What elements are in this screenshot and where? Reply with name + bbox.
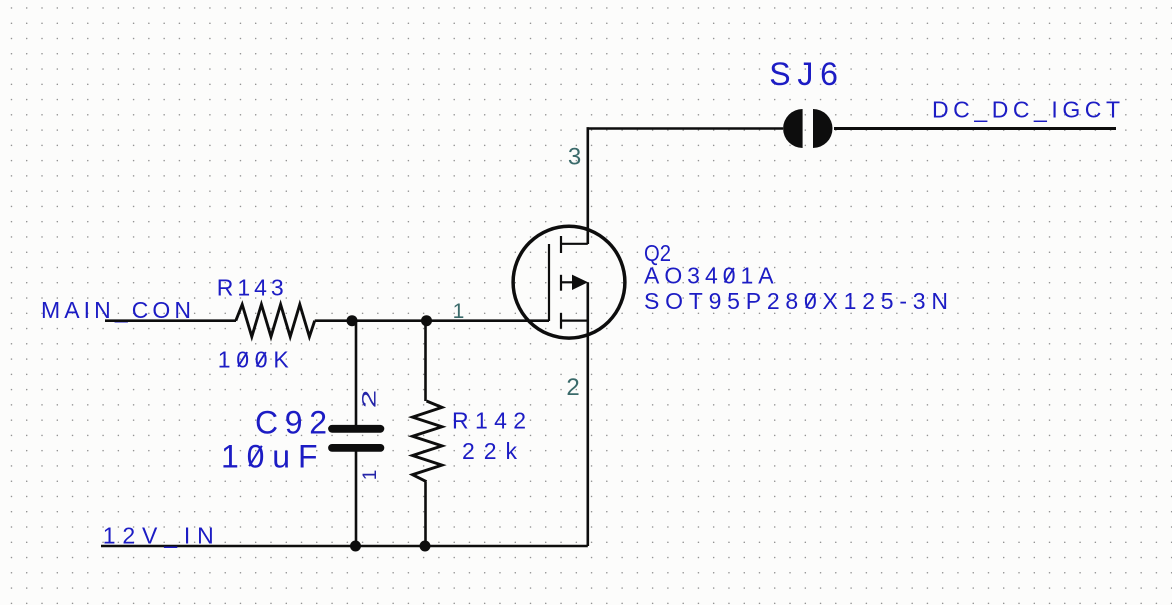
wire C92 bottom [355,451,358,547]
Q2 channel segment bottom [560,313,562,329]
wire R142 bottom [424,482,427,546]
Q2 drain lead [561,243,588,245]
junction node C92 at rail [350,541,361,552]
solder jumper SJ6 right pad [813,109,833,148]
Q2 bulk arrow [572,275,588,290]
svg-text:SOT95P280X125-3N: SOT95P280X125-3N [644,288,948,314]
transistor Q2 body circle [513,226,625,338]
svg-text:R142: R142 [452,408,526,434]
svg-text:1: 1 [360,470,381,481]
pin 3 wire (drain up) [586,127,589,244]
svg-text:100K: 100K [218,347,290,373]
slashed zero marks of 100K [238,352,247,367]
wire C92 top [355,321,358,426]
Q2 gate bar [548,244,550,321]
svg-text:SJ6: SJ6 [769,56,838,92]
svg-text:12V_IN: 12V_IN [103,523,214,549]
Q2 bulk lead [561,281,573,283]
svg-text:1: 1 [453,300,465,323]
Q2 channel segment top [560,236,562,253]
junction node at C92 [347,315,358,326]
wire top rail right [834,127,1116,130]
capacitor C92 plate bottom [332,444,380,452]
wire top rail left [587,127,784,130]
junction node R142 at rail [420,541,431,552]
wire R142 top [424,321,427,401]
junction node at R142 [421,315,432,326]
capacitor C92 plate top [332,425,380,433]
svg-text:AO3401A: AO3401A [644,263,774,289]
svg-text:DC_DC_IGCT: DC_DC_IGCT [932,97,1120,123]
slashed zero mark of AO3401A [725,268,734,283]
solder jumper SJ6 left pad [783,109,803,148]
wire R143 to gate [315,319,549,322]
svg-text:3: 3 [568,143,581,170]
svg-text:10uF: 10uF [221,439,318,475]
wire MAIN_CON to R143 [105,319,236,322]
slashed zero mark of SOT95P280X125-3N [806,293,815,308]
svg-text:2: 2 [566,374,579,401]
svg-text:MAIN_CON: MAIN_CON [41,297,191,323]
slashed zero mark of 10uF [249,446,262,466]
wire bottom rail [101,545,588,548]
Q2 source lead [561,320,588,322]
pin 2 wire (source down) [586,282,589,546]
Q2 channel segment middle [560,275,562,291]
resistor R142 zigzag [413,401,443,482]
svg-text:R143: R143 [217,275,284,301]
resistor R143 zigzag [236,305,315,337]
svg-text:C92: C92 [255,404,327,440]
svg-text:2: 2 [360,390,381,409]
svg-text:22k: 22k [462,438,518,464]
